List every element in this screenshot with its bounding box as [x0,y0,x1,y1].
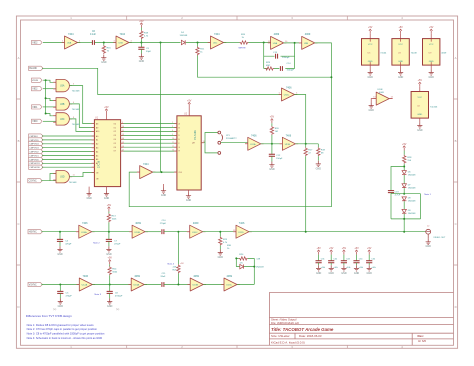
IC U2 74LS166 shift register [177,116,201,190]
svg-text:A3: A3 [96,147,98,150]
resistor R17 22 series [305,144,307,148]
inverter U9A 4069 oscillator [268,36,287,49]
pin numbers data bus [122,122,174,152]
svg-text:O5: O5 [114,143,116,145]
wire U5B to D4 [129,42,181,44]
ground under R23 [219,246,221,250]
svg-text:u10k: u10k [359,267,363,269]
decoupling cap C35 [366,247,376,275]
wire gate input rail [46,80,56,116]
wire CSYNC to U3D [41,174,56,181]
node BLANK drop [160,42,162,44]
svg-text:O2: O2 [114,131,116,133]
svg-text:1M: 1M [275,131,278,133]
svg-text:12: 12 [172,146,174,148]
svg-text:D: D [455,305,457,309]
svg-text:U11C: U11C [284,95,290,97]
wire A7 [42,162,94,164]
label CMPHOR1 [29,161,43,165]
svg-text:3: 3 [172,126,173,128]
svg-text:150pF: 150pF [276,158,283,160]
svg-text:7406: 7406 [286,134,292,137]
ground under U2 [188,190,190,193]
node A top of chain [403,166,405,168]
svg-text:VIDEO OUT: VIDEO OUT [433,237,446,239]
capacitor C5 470pF [59,285,61,292]
svg-text:O0: O0 [114,123,116,125]
inverter U10C 4069 [187,225,206,238]
svg-text:Note 1: Note 1 [424,193,431,196]
svg-text:BLANK: BLANK [29,67,37,70]
AND gate U3C 74LS08 [53,113,72,125]
svg-text:U10C: U10C [192,232,198,234]
svg-text:Note 2: Note 2 [93,241,100,244]
diode D9 1N4148 [402,209,406,213]
wire composite video line [249,231,426,233]
wire U3C output to ROM [69,119,94,131]
svg-text:22K: 22K [173,266,177,268]
node oscillator left [263,42,265,44]
label VID1 [32,105,43,109]
label VID2B [32,78,43,82]
wire U5A to C6 [78,42,93,44]
svg-text:A2: A2 [96,143,98,146]
wire U13C output to loop [236,258,254,284]
label CMPHOR0 [29,165,43,169]
node C5 branch [59,284,61,286]
wire oscillator output down to clock loop [129,43,331,207]
node wired-or [305,143,307,145]
ground under R19 [317,156,319,160]
+5V for U2 [187,99,192,107]
svg-text:4069: 4069 [441,52,447,54]
ground on U10F input [371,99,376,103]
svg-text:Size: USLetter: Size: USLetter [271,334,290,338]
svg-text:CSYNC: CSYNC [29,181,37,183]
decoupling cap C32 [328,247,338,275]
svg-text:VID1: VID1 [32,107,38,109]
svg-text:14: 14 [172,150,174,152]
svg-text:1N4148: 1N4148 [180,35,188,37]
resistor R23 4.7k [219,232,221,237]
wire U10B to C10 [145,231,161,233]
svg-text:GND: GND [417,114,422,116]
label BLANK [29,66,43,70]
capacitor C6 [92,40,94,45]
inverter U5C 7404 [208,36,227,49]
resistor R26 horizontal [240,41,249,44]
svg-text:A10: A10 [96,130,99,133]
node R21 branch [197,42,199,44]
capacitor C11 33nF series [162,282,164,287]
svg-text:4700pF: 4700pF [115,295,123,297]
wire D7 to node B [403,188,405,194]
svg-text:+5V: +5V [180,263,184,265]
svg-text:(w): (w) [53,308,57,311]
svg-text:U5A: U5A [67,42,72,45]
resistor R21 1k [197,43,199,47]
resistor R25 22K vertical between rows [177,232,179,265]
wire D8 to D9 [403,201,405,209]
label CMPBLK1 [29,134,43,138]
wire D6 to D7 [403,175,405,184]
capacitor C19 branch [391,167,404,191]
node feedback join [330,76,332,78]
svg-text:B: B [18,139,20,143]
wire U5D to U2 clock [153,171,177,173]
svg-text:U12A: U12A [82,284,88,287]
svg-text:VID2: VID2 [32,89,38,91]
wire A1 [42,139,94,141]
+5V above R18 [139,20,144,28]
wire A2 [42,143,94,145]
resistor R19 68 pulldown [317,144,319,148]
svg-text:u10k: u10k [333,267,337,269]
node R27/C7 [108,231,110,233]
svg-text:D: D [17,305,19,309]
node R20/C12 [271,143,273,145]
svg-text:U3C: U3C [60,119,65,121]
svg-text:4: 4 [172,130,173,132]
data bus wires U1 to U2 [121,124,177,152]
AND gate U3B 74LS08 [53,98,72,110]
resistor R14 560k [109,264,111,266]
wire D4 to U5C [186,42,211,44]
svg-text:VCC: VCC [417,97,422,99]
svg-text:1N4148: 1N4148 [408,213,416,215]
inverter U11A 7406 [245,137,264,150]
diode D4 1N4148 [181,40,185,44]
label VID0 [32,119,43,123]
svg-text:2: 2 [172,122,173,124]
svg-text:4069: 4069 [305,33,311,36]
svg-text:u10k: u10k [321,267,325,269]
svg-text:U3D: U3D [60,177,65,179]
svg-text:0.1uF: 0.1uF [90,34,96,36]
wire A4 [42,151,94,153]
+5V above R27 [107,204,112,212]
svg-text:4069: 4069 [274,33,280,36]
inverter U13C 4069 [221,278,240,291]
ground under C8 [109,293,111,298]
capacitor C12 150pF [271,144,273,155]
wire A0 [42,135,94,137]
svg-text:Note 4: Note 4 [168,262,175,265]
svg-text:C: C [17,222,19,226]
svg-text:74LS08: 74LS08 [69,182,77,184]
svg-text:U5C: U5C [213,43,218,45]
svg-text:7404: 7404 [214,33,220,36]
wire U2 output to JP1 [201,133,218,153]
svg-text:u10k: u10k [346,267,350,269]
svg-text:U13C: U13C [226,285,232,287]
svg-text:u10k: u10k [371,267,375,269]
svg-text:2200pF: 2200pF [282,57,290,59]
ground under U1 pin12 [88,187,90,191]
svg-text:470pF: 470pF [65,243,72,245]
svg-text:O4: O4 [114,139,116,141]
svg-text:O1: O1 [114,127,116,129]
svg-text:File: VidRC2C2k2C.sch: File: VidRC2C2k2C.sch [271,321,300,325]
svg-text:7406: 7406 [83,275,89,278]
power unit U2 74x166 [418,79,423,87]
svg-text:WHITE: WHITE [239,48,247,50]
wire node B row [391,193,421,195]
ground under C9 [140,49,142,53]
wire U11C output to wired-or node [295,95,306,144]
wire U3B output to ROM [69,104,94,128]
wire VID2A to U3A [43,88,56,90]
resistor R16 75 [103,43,105,46]
svg-text:VID2: VID2 [32,42,38,44]
svg-text:33pF: 33pF [146,51,152,53]
svg-text:4069: 4069 [135,222,141,225]
diode D7 1N4148 [402,184,406,188]
resistor R27 100k [108,212,110,214]
power unit U3 74x08 [398,26,403,34]
capacitor C10 270pF series [162,229,164,234]
capacitor C9 33pF [140,43,142,48]
svg-text:VID2B: VID2B [32,80,39,82]
svg-text:O3: O3 [114,135,116,137]
svg-text:A7: A7 [96,162,98,165]
resistor R24 horizontal [239,257,248,260]
svg-text:A8: A8 [96,122,98,125]
svg-text:5: 5 [172,134,173,136]
+5V for U1 [104,106,109,114]
inverter U9B 4069 oscillator [299,36,318,49]
wire JP1 to U11A [221,142,248,144]
wire U11A to U11B [261,143,283,145]
capacitor C7 [108,232,110,240]
svg-text:VID0: VID0 [32,121,38,123]
svg-text:A: A [455,56,457,60]
label VID2A [32,87,43,91]
svg-text:A: A [18,56,20,60]
decoupling cap C34 [353,247,363,275]
svg-text:470pF: 470pF [66,295,73,297]
power unit U5 74x04 [368,26,373,34]
svg-text:10: 10 [172,138,174,140]
inverter U5D 7404 clock [137,166,156,179]
wire VID0 to U3C [43,120,56,122]
wire A5 [42,155,94,157]
svg-text:4069: 4069 [134,275,140,278]
ground under J2 [426,239,432,249]
svg-text:Id: 6/6: Id: 6/6 [418,339,426,343]
capacitor C13 2200pF [276,54,278,59]
capacitor C14 1000pF [280,66,282,71]
notes text block [26,314,105,340]
svg-text:74x166: 74x166 [430,106,438,108]
ground under U1 pin21 [106,187,108,191]
svg-text:C: C [455,222,457,226]
wire U10C to U11D [203,231,236,233]
svg-text:POLARITY: POLARITY [226,137,237,140]
node after C6 [103,42,105,44]
svg-text:A0: A0 [96,135,98,138]
svg-text:VSYNC: VSYNC [29,284,37,286]
svg-text:U3B: U3B [60,104,65,106]
ground under C7 [108,241,110,246]
svg-text:U5B: U5B [119,43,124,45]
svg-text:Note 1: Diodes D8 & D9 bypasse: Note 1: Diodes D8 & D9 bypassed for prop… [27,323,95,327]
svg-text:1N4148: 1N4148 [408,201,416,203]
svg-text:U9A: U9A [273,42,278,45]
svg-text:270pF: 270pF [160,223,167,225]
node R18 branch [140,42,142,44]
svg-text:1000pF: 1000pF [287,70,295,72]
+5V above R28 [402,143,407,151]
wire VID2B to U3A [43,80,56,82]
svg-text:U13A: U13A [134,284,140,287]
node R23 [219,231,221,233]
decoupling cap C33 [341,247,351,275]
svg-text:Note 3: C8 is 4700pF parallele: Note 3: C8 is 4700pF paralleled with 330… [27,332,105,336]
svg-text:A6: A6 [96,158,98,161]
wire C11 to U13B [164,284,190,286]
svg-text:HSYNC: HSYNC [29,232,37,234]
svg-text:33nF: 33nF [160,276,166,278]
inverter U11C 7406 upper [279,88,298,101]
IC U1 27C16 EPROM [94,120,120,187]
svg-text:U10F: U10F [377,89,383,91]
label VID2 [32,40,43,44]
ground under C12 [271,156,273,161]
svg-text:U13B: U13B [193,285,199,287]
svg-text:7406: 7406 [239,222,245,225]
node R25 bottom [177,284,179,286]
wire U12A to U13A [92,284,131,286]
wire U10A to U10B [92,231,132,233]
label CMPVID4 [29,142,43,146]
svg-text:7406: 7406 [82,222,88,225]
wire VSYNC to U13 [41,284,79,286]
wire VID2 to U5A [43,42,65,44]
svg-text:Differences from TVT 9 5/B des: Differences from TVT 9 5/B design [26,314,72,318]
svg-text:Note 2: C7l has 270pF caps in: Note 2: C7l has 270pF caps in parallel t… [27,327,98,331]
label CMPVID3 [29,146,43,150]
inverter U13A 4069 [128,278,147,291]
resistor R28 150 [403,151,405,155]
title block [269,292,453,345]
inverter U10A 4069 [76,225,95,238]
svg-text:7404: 7404 [68,33,74,36]
wire A3 [42,147,94,149]
svg-text:A9: A9 [96,126,98,129]
svg-text:7404: 7404 [143,163,149,166]
wire U5C to R26 [224,42,240,44]
svg-text:U10A: U10A [81,231,87,234]
+5V above R20 [270,116,275,124]
wire vertical to shift register [160,43,162,173]
capacitor C8 4700pF [109,285,111,292]
resistor R20 1M [271,123,273,126]
AND gate U3A 74LS08 [53,79,72,91]
wire C6 to U5B [95,42,116,44]
svg-text:4069: 4069 [193,275,199,278]
svg-text:A1: A1 [96,139,98,142]
svg-text:74LS166: 74LS166 [194,130,197,140]
inverter U11D 7406 [233,225,252,238]
svg-text:U11B: U11B [285,144,291,146]
inverter U5B 7404 [113,36,132,49]
title block text [271,318,426,345]
svg-text:74LS08: 74LS08 [72,91,80,93]
svg-text:74LS08: 74LS08 [72,109,80,111]
svg-text:CMPHOR0: CMPHOR0 [29,167,40,169]
wire R21 down to feedback row [198,56,332,78]
oscillator RC network wires [264,43,295,69]
wire node C row and bypass loop [391,194,421,232]
+5V above R14 [108,257,113,265]
svg-text:4069: 4069 [379,92,385,94]
label CMPVID2 [29,150,43,154]
wire U13B to U13C [203,284,224,286]
node C4 branch [59,231,61,233]
decoupling cap C31 [316,247,326,275]
svg-text:4069: 4069 [227,275,233,278]
wire U3A output to ROM [69,86,94,124]
svg-text:4069: 4069 [193,222,199,225]
svg-text:KiCad E.D.A. kicad (5.0.0): KiCad E.D.A. kicad (5.0.0) [271,340,305,344]
inverter U11B 7406 [280,137,299,150]
resistor R29 5.6k [265,67,274,70]
svg-text:7406: 7406 [286,87,292,90]
diode D5 1N4148 [240,264,244,268]
wire U3D output to ROM [69,173,94,177]
svg-text:O6: O6 [114,147,116,149]
svg-text:Note 4: Schematic in book is i: Note 4: Schematic in book is incorrect -… [27,336,103,340]
svg-text:7404: 7404 [120,33,126,36]
svg-text:11: 11 [172,142,174,144]
node D5 output [253,266,255,268]
label CMPVID1 [29,153,43,157]
diode D6 1N4148 [402,171,406,175]
wire VID1 to U3B [43,106,56,108]
svg-text:B: B [455,139,457,143]
svg-text:Note 3: Note 3 [95,293,102,296]
ground under R16 [101,55,107,65]
label VSYNC [28,282,43,286]
svg-text:Rev:: Rev: [418,334,424,338]
svg-text:74x08: 74x08 [411,52,418,54]
IC pin stubs [92,124,204,173]
svg-text:4.7uF: 4.7uF [395,194,401,196]
svg-text:U10B: U10B [134,232,140,234]
ground under C4 [59,241,61,246]
svg-text:1N4148: 1N4148 [408,174,416,176]
svg-text:(w): (w) [116,308,120,311]
wire R26 to U9A [249,42,271,44]
svg-text:74x04: 74x04 [380,52,387,54]
inverter U12A 7406 [77,278,96,291]
wire C10 to U10C [164,231,190,233]
ground sym near U5D [163,184,165,188]
ground under C5 [59,293,61,298]
svg-text:Date: 2018-06-03: Date: 2018-06-03 [299,334,322,338]
svg-text:1N4148: 1N4148 [408,188,416,190]
label CMPVID0 [29,157,43,161]
svg-text:U11D: U11D [238,232,244,234]
wire HSYNC to U10A [41,231,78,233]
wire BLANK routing [42,68,282,94]
label HSYNC [28,230,43,234]
node R25 top [177,231,179,233]
resistor R18 4.7k [140,28,142,31]
jumper JP1 POLARITY [218,131,223,154]
wire U11B output to node [295,143,318,145]
